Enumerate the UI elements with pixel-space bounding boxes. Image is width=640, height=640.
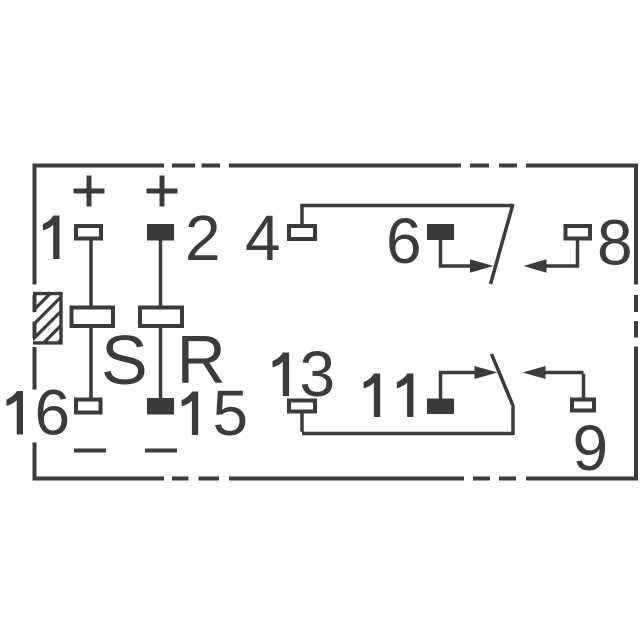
- svg-text:3: 3: [300, 338, 336, 410]
- svg-text:6: 6: [386, 205, 422, 277]
- svg-text:S: S: [101, 321, 148, 399]
- svg-text:9: 9: [573, 412, 609, 484]
- svg-text:R: R: [177, 322, 226, 398]
- svg-text:4: 4: [245, 202, 281, 274]
- svg-text:8: 8: [597, 207, 633, 279]
- svg-text:6: 6: [35, 377, 71, 449]
- svg-text:2: 2: [185, 202, 221, 274]
